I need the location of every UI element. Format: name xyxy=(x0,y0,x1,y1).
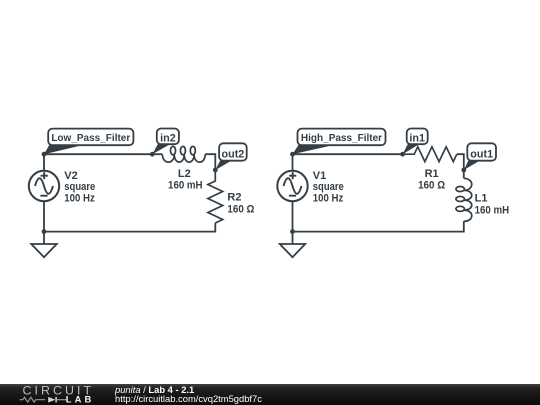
svg-text:100 Hz: 100 Hz xyxy=(64,192,95,204)
ground left xyxy=(43,232,45,244)
svg-text:out1: out1 xyxy=(470,149,493,161)
flag out2 xyxy=(215,160,233,170)
svg-text:square: square xyxy=(64,181,95,193)
resistor R2 xyxy=(208,170,223,223)
node dot out1 xyxy=(461,168,466,173)
node dot top-right-circuit xyxy=(290,152,295,157)
svg-text:R2: R2 xyxy=(227,192,241,204)
svg-text:L1: L1 xyxy=(475,193,488,205)
svg-text:in2: in2 xyxy=(160,133,176,145)
voltage source V1 xyxy=(292,154,294,231)
svg-text:square: square xyxy=(313,181,344,193)
node dot top-left xyxy=(42,152,47,157)
inductor L1 xyxy=(463,170,465,178)
svg-text:160 mH: 160 mH xyxy=(475,204,510,216)
svg-text:V2: V2 xyxy=(64,170,77,182)
svg-text:out2: out2 xyxy=(222,149,245,161)
svg-text:Low_Pass_Filter: Low_Pass_Filter xyxy=(51,133,130,144)
svg-text:100 Hz: 100 Hz xyxy=(313,192,344,204)
node dot bottom-left xyxy=(42,229,47,234)
svg-text:160 mH: 160 mH xyxy=(168,180,203,192)
svg-text:V1: V1 xyxy=(313,170,326,182)
svg-text:in1: in1 xyxy=(409,133,425,145)
svg-text:160 Ω: 160 Ω xyxy=(227,204,254,216)
svg-text:L2: L2 xyxy=(178,168,191,180)
logo resistor zigzag xyxy=(20,397,46,402)
flag out1 xyxy=(464,160,482,170)
wire R1 to corner down to out1 xyxy=(457,154,464,170)
svg-text:160 Ω: 160 Ω xyxy=(418,180,445,192)
wire top left xyxy=(44,153,152,155)
node dot in2 xyxy=(150,152,155,157)
inductor L2 xyxy=(152,153,162,155)
node dot bottom-right-circuit xyxy=(290,229,295,234)
wire top right xyxy=(293,153,403,155)
footer title line xyxy=(115,385,194,394)
svg-text:High_Pass_Filter: High_Pass_Filter xyxy=(301,133,382,144)
node dot out2 xyxy=(213,168,218,173)
footer url line xyxy=(115,394,262,403)
ground right xyxy=(292,232,294,244)
flag High_Pass_Filter xyxy=(293,144,338,154)
flag in1 xyxy=(403,143,421,154)
flag Low_Pass_Filter xyxy=(44,144,87,154)
logo wire to LAB xyxy=(57,399,68,401)
svg-text:R1: R1 xyxy=(425,168,439,180)
wire R2 to bottom xyxy=(44,223,215,232)
voltage source V2 xyxy=(43,154,45,231)
wire L1 to bottom xyxy=(293,221,464,231)
node dot in1 xyxy=(400,152,405,157)
svg-text:LAB: LAB xyxy=(66,393,95,404)
wire L2 to corner down to out2 xyxy=(205,154,215,170)
logo diode xyxy=(48,397,55,403)
flag in2 xyxy=(152,143,172,154)
resistor R1 xyxy=(403,147,457,162)
